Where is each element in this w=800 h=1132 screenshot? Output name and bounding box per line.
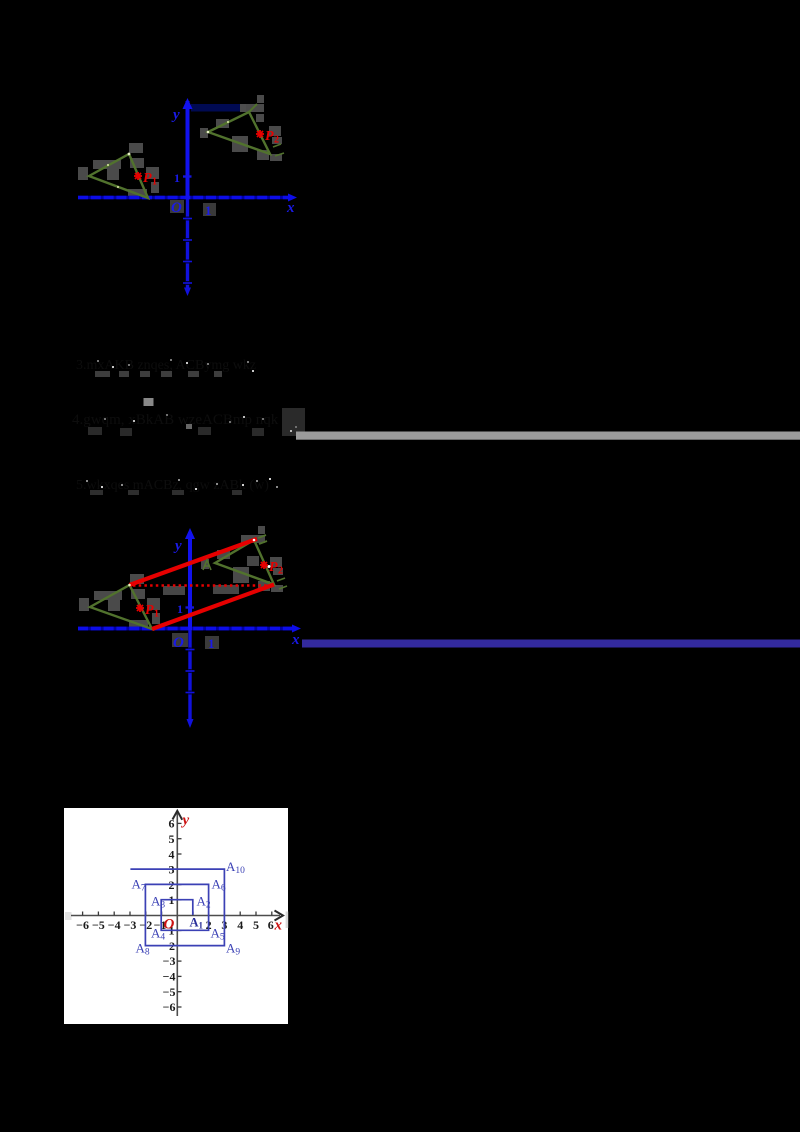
svg-text:1: 1 — [208, 636, 215, 651]
svg-text:−4: −4 — [163, 970, 176, 984]
x-axis figure — [71, 915, 280, 917]
x-axis graph2 (dashed) — [78, 627, 294, 631]
svg-text:y: y — [173, 538, 182, 554]
svg-text:2: 2 — [274, 135, 279, 146]
svg-text:x: x — [274, 918, 283, 934]
red point marker P1 — [134, 172, 142, 180]
svg-text:−3: −3 — [163, 954, 176, 968]
y-axis figure — [176, 813, 178, 1016]
red point marker P2 graph2 — [260, 561, 268, 569]
left resize handle — [65, 912, 72, 920]
svg-text:−4: −4 — [108, 918, 121, 932]
y-axis lower graph2 with ticks — [188, 630, 191, 723]
gray residue mid lines (graph 2) — [163, 556, 259, 649]
svg-text:O: O — [164, 917, 175, 933]
gray residue near origin labels — [170, 200, 184, 213]
svg-text:4.gwqm, xBkAB wzeACBmp nqk: 4.gwqm, xBkAB wzeACBmp nqk — [72, 412, 279, 428]
triangle DEF (right, quadrant I) — [208, 112, 270, 154]
x-axis arrowhead — [288, 194, 297, 202]
y-axis upper (solid) — [186, 101, 190, 199]
green marks near F vertex — [273, 144, 281, 147]
svg-text:−6: −6 — [163, 1000, 176, 1014]
gray text-blob residue right triangle — [200, 95, 282, 161]
red translation line top — [130, 539, 258, 585]
x axis numbers — [76, 918, 274, 932]
x-axis arrow figure (chevron) — [275, 911, 284, 921]
gray text-blob residue left triangle (graph 2) — [79, 574, 160, 627]
svg-text:6: 6 — [268, 918, 274, 932]
vertex dots — [128, 153, 131, 156]
vertex white dots graph2 — [128, 584, 131, 587]
green mark above top vertex D — [249, 104, 257, 112]
blue spiral polyline A1..A10 — [130, 869, 224, 946]
svg-text:2: 2 — [278, 566, 283, 577]
svg-text:y: y — [181, 813, 190, 829]
svg-text:4: 4 — [237, 918, 243, 932]
triangle ABC (left, quadrant II) — [89, 154, 148, 198]
x tick marks — [83, 912, 272, 916]
svg-text:1: 1 — [174, 171, 180, 185]
svg-text:1: 1 — [154, 609, 159, 620]
svg-text:O: O — [173, 635, 184, 651]
svg-text:5: 5 — [253, 918, 259, 932]
navy segment top (line y=3 fragment) — [191, 104, 240, 112]
green label marks near B1 left vertex — [203, 560, 211, 570]
red translation line bottom — [152, 585, 274, 630]
svg-text:1: 1 — [177, 602, 183, 616]
svg-text:P: P — [145, 603, 154, 618]
svg-text:−5: −5 — [163, 985, 176, 999]
y tick marks — [177, 823, 181, 1007]
svg-text:3.mxAKB znqes, ACBymg wkz: 3.mxAKB znqes, ACBymg wkz — [76, 358, 256, 373]
svg-text:−6: −6 — [76, 918, 89, 932]
red dotted construction line — [133, 584, 271, 587]
y-axis arrowhead graph2 — [185, 528, 195, 539]
svg-text:4: 4 — [169, 847, 175, 861]
svg-text:−3: −3 — [124, 918, 137, 932]
x-axis (dashed) — [78, 196, 289, 200]
y-axis arrow figure (chevron) — [173, 811, 183, 820]
svg-text:1: 1 — [152, 177, 157, 188]
y axis numbers — [163, 817, 176, 1014]
svg-text:5: 5 — [169, 832, 175, 846]
x-axis arrowhead graph2 — [292, 625, 301, 633]
red point marker P2 — [256, 130, 264, 138]
svg-text:6: 6 — [169, 817, 175, 831]
svg-text:x: x — [291, 632, 300, 648]
green label marks near C1 vertex — [277, 578, 285, 581]
y-axis arrowhead — [183, 98, 193, 109]
y-axis upper graph2 — [188, 532, 192, 630]
green label marks near A1 top vertex — [258, 535, 266, 538]
navy bar right of graph2 — [302, 640, 800, 648]
right resize handle — [286, 912, 289, 929]
gray highlight bar — [296, 432, 800, 440]
triangle A1B1C1 graph2 (right) — [215, 540, 274, 585]
svg-text:x: x — [286, 200, 295, 216]
svg-text:P: P — [269, 560, 278, 575]
svg-text:O: O — [171, 200, 182, 216]
y-axis lower with unit ticks — [186, 199, 189, 291]
red point marker P1 graph2 — [136, 604, 144, 612]
gray text-blob residue left triangle — [78, 143, 159, 196]
svg-text:1: 1 — [205, 203, 212, 218]
triangle ABC graph2 (left) — [90, 585, 152, 629]
y unit tick at y=1 — [183, 175, 192, 177]
svg-text:P: P — [265, 129, 274, 144]
svg-text:P: P — [143, 171, 152, 186]
svg-text:y: y — [171, 107, 180, 123]
svg-text:−5: −5 — [92, 918, 105, 932]
gray text-blob residue right triangle (graph 2) — [201, 526, 283, 592]
y-axis lower arrow graph2 — [187, 719, 194, 728]
white image background — [64, 808, 288, 1024]
y-axis lower end — [184, 288, 191, 297]
y unit tick graph2 — [186, 606, 195, 608]
